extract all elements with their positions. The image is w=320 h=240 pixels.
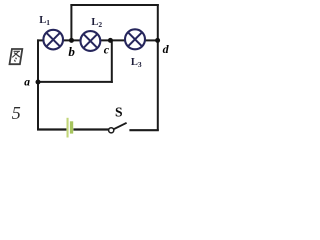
lamp L1 cross (46, 33, 60, 47)
node d junction dot (155, 38, 160, 43)
wire: riser from node b up to top wire (70, 4, 72, 41)
lamp L2 cross (84, 34, 98, 48)
svg-text:d: d (163, 42, 170, 56)
wire: bottom segment left corner to battery (37, 128, 66, 130)
caption glyph "tu" (figure) drawn manually (10, 49, 23, 64)
lamp L3 cross (128, 32, 142, 46)
wire: bottom segment switch to right rail (129, 129, 158, 131)
svg-text:S: S (115, 105, 123, 120)
svg-text:b: b (68, 44, 75, 59)
wire: lamp row segment L2 to L3 through node c (100, 39, 126, 41)
node b junction dot (69, 38, 74, 43)
lamp L2 circle (81, 31, 101, 51)
wire: riser from node c down to middle wire (111, 40, 113, 83)
wire: lamp row segment left corner to L1 (37, 39, 45, 41)
wire: top horizontal from node b riser to right rail (70, 4, 158, 6)
wire: middle horizontal from node a to c riser (37, 81, 113, 83)
wire: right vertical rail (157, 4, 159, 131)
lamp L1 circle (43, 30, 63, 50)
switch S lever (114, 123, 127, 129)
svg-text:a: a (24, 77, 30, 89)
wire: lamp row segment L1 to L2 through node b (63, 39, 82, 41)
battery short plate (70, 121, 73, 133)
switch S pivot circle (109, 128, 114, 133)
wire: lamp row segment L3 to node d / right rail (144, 39, 158, 41)
node a junction dot (36, 80, 41, 85)
wire: bottom segment battery to switch pivot (73, 128, 108, 130)
battery long plate (67, 118, 69, 138)
svg-text:c: c (104, 43, 110, 57)
lamp L3 circle (125, 29, 145, 49)
wire: left vertical rail (37, 39, 39, 130)
node c junction dot (108, 38, 113, 43)
svg-text:5: 5 (12, 103, 21, 123)
